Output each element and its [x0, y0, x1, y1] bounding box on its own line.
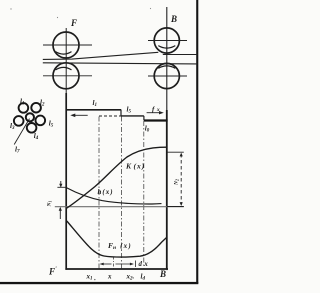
svg-text:K(x): K(x)	[125, 162, 145, 171]
arrow f right	[147, 112, 162, 114]
wire: short dash-dot vertical x	[112, 257, 114, 269]
wire: baseline right tick black	[167, 206, 184, 208]
groove arc F top	[56, 52, 72, 55]
arrow left under l1	[72, 114, 88, 116]
svg-text:B: B	[170, 14, 177, 24]
border right	[196, 0, 198, 284]
speck	[10, 8, 11, 9]
wire: dashed extension of level l5	[99, 115, 121, 117]
loop circle l3	[14, 116, 24, 126]
curve h(x)	[67, 188, 162, 204]
wire: graph bottom axis	[65, 268, 168, 270]
wire: step level l5	[121, 115, 144, 117]
wire: stand B vertical axis line	[166, 7, 168, 110]
wire: step down 1	[120, 110, 122, 116]
loop circle l2	[31, 103, 41, 113]
wire: graph left axis	[65, 93, 67, 270]
dimension N1 down arrow	[60, 181, 62, 187]
wire: step level l0	[144, 119, 168, 121]
loop circle l1	[19, 103, 29, 113]
wire: crosshair B top	[148, 40, 187, 42]
wire: graph right wall	[166, 110, 168, 270]
roll B top	[154, 28, 179, 53]
groove arc B bottom	[158, 66, 175, 68]
groove arc F bottom	[56, 67, 72, 70]
tick before d	[134, 261, 136, 268]
loop circle l5	[36, 116, 46, 126]
wire: crosshair B bottom	[148, 75, 187, 77]
groove arc B top	[158, 46, 175, 49]
loop circle l4	[27, 123, 37, 133]
roll F bottom	[53, 63, 79, 89]
wire: dash-dot vertical ld	[143, 121, 145, 269]
wire: dash-dot vertical x2	[120, 117, 122, 269]
speck	[94, 279, 95, 280]
wire: dash-dot vertical x1	[98, 117, 100, 269]
wire: strip exit top line	[163, 54, 198, 56]
svg-text:x: x	[107, 273, 112, 281]
svg-text:h(x): h(x)	[98, 188, 113, 196]
svg-text:F: F	[70, 18, 77, 28]
dimension N1 up arrow	[59, 208, 61, 219]
wire: stand F vertical axis line	[65, 28, 67, 93]
speck	[57, 17, 58, 18]
curve Fn(x)	[67, 221, 167, 257]
wire: crosshair F top	[43, 44, 92, 46]
roll B bottom	[154, 63, 179, 88]
svg-text:N2: N2	[174, 179, 180, 186]
wire: strip upper line	[43, 52, 159, 59]
wire: crosshair F bottom	[43, 75, 92, 77]
wire: step level l1	[66, 109, 121, 111]
wire: leader line l7	[14, 119, 29, 145]
dimension N2 line	[180, 154, 182, 205]
svg-text:N1: N1	[47, 201, 53, 208]
curve K(x)	[67, 147, 167, 208]
wire: step down 2	[143, 116, 145, 121]
dx dimension arrows	[101, 263, 112, 265]
wire: strip lower line	[43, 63, 198, 64]
border bottom	[0, 282, 198, 284]
speck	[150, 8, 151, 9]
svg-text:dx: dx	[139, 261, 149, 268]
dimension N1 left: top tick	[57, 186, 66, 188]
roll F top	[53, 32, 79, 58]
wire: gray baseline	[55, 206, 184, 208]
dimension N2 right: top tick	[167, 151, 184, 153]
loop circle center	[26, 113, 34, 121]
